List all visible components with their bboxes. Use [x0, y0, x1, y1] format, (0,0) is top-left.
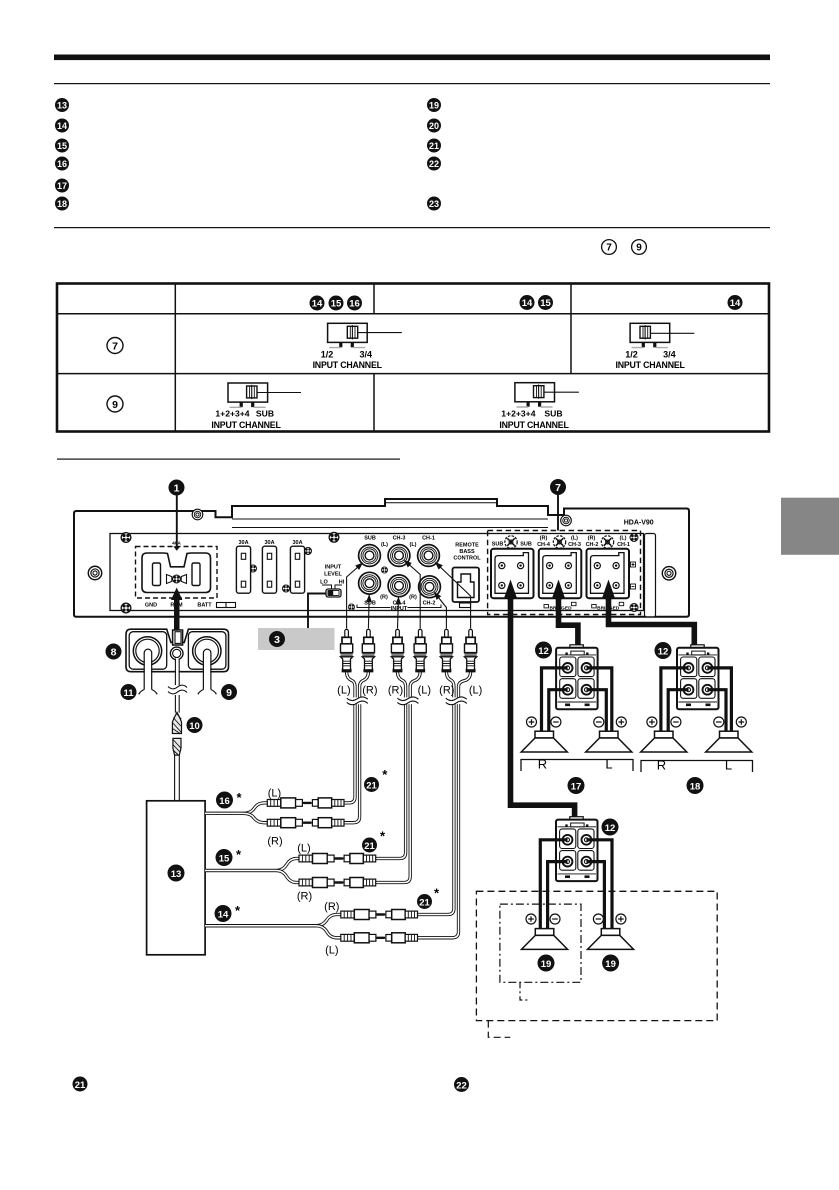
cable break symbol CH-4/CH-3 pair — [397, 697, 418, 705]
callout badge 18 — [687, 777, 704, 794]
speaker terminal labels CH-4 CH-3 — [537, 536, 581, 549]
screw left end cap — [88, 566, 101, 579]
svg-text:HDA-V90: HDA-V90 — [624, 520, 654, 527]
screw dashed box top-right — [630, 534, 638, 542]
head unit output wires run 15 — [205, 859, 299, 883]
svg-text:16: 16 — [219, 796, 230, 807]
svg-text:CH-3: CH-3 — [568, 542, 581, 548]
leader plug CH-3 to jack — [405, 561, 421, 629]
svg-text:*: * — [380, 829, 386, 844]
remote wire lower — [175, 695, 179, 713]
speaker wires group 17 — [542, 668, 612, 732]
svg-text:R: R — [538, 757, 547, 772]
callout badge 13 — [168, 865, 185, 882]
svg-text:23: 23 — [429, 199, 439, 209]
svg-text:(L): (L) — [297, 843, 310, 855]
svg-text:13: 13 — [171, 869, 182, 880]
svg-text:*: * — [382, 767, 388, 782]
svg-text:CH-1: CH-1 — [617, 542, 630, 548]
extension cable 21 connectors run 15 (L) — [299, 854, 376, 864]
power plug insertion arrow — [171, 588, 182, 630]
subwoofer enclosure dashed box — [476, 891, 717, 1020]
screw top face right — [561, 515, 572, 526]
screw dashed box bottom-right — [630, 604, 638, 612]
svg-text:21: 21 — [75, 1080, 86, 1091]
gray index tab at page edge — [781, 498, 839, 555]
table header badge 16 (col2) — [347, 296, 362, 311]
svg-text:9: 9 — [226, 687, 232, 699]
svg-text:SUB: SUB — [364, 536, 376, 542]
svg-text:16: 16 — [57, 159, 67, 169]
callout badge 16 — [216, 790, 242, 809]
svg-text:(L): (L) — [619, 536, 626, 542]
svg-text:16: 16 — [349, 298, 360, 309]
svg-text:14: 14 — [730, 298, 741, 309]
svg-text:30A: 30A — [264, 540, 274, 546]
extension cable 21 connectors run 14 (R) — [341, 910, 418, 920]
callout badge 1 — [169, 480, 185, 496]
svg-text:(R): (R) — [439, 685, 454, 697]
svg-text:15: 15 — [540, 298, 551, 309]
callout badge 10 — [187, 717, 203, 733]
leader plug CH-4 to jack — [398, 597, 399, 628]
leader plug SUB(L) to jack — [347, 563, 363, 629]
INPUT bracket — [357, 605, 441, 612]
callout badge 11 — [121, 684, 137, 700]
svg-text:17: 17 — [571, 781, 582, 792]
svg-text:8: 8 — [111, 646, 117, 658]
extension cable 21 connectors run 14 (L) — [341, 933, 418, 943]
extension cable 21 connectors run 16 (L) — [267, 798, 344, 808]
RCA plug CH-2 (R) — [440, 629, 452, 671]
svg-text:GND: GND — [145, 602, 157, 608]
svg-text:1/2: 1/2 — [625, 349, 638, 359]
INPUT LEVEL switch — [326, 589, 341, 597]
svg-text:(R): (R) — [297, 891, 312, 903]
svg-text:7: 7 — [606, 243, 612, 254]
cable break symbol CH-2/CH-1 pair — [446, 697, 467, 705]
speaker cable CH-4/CH-3 (thick) — [552, 580, 578, 646]
RCA plug CH-4 (R) — [391, 629, 403, 671]
svg-text:LEVEL: LEVEL — [324, 571, 342, 577]
svg-text:21: 21 — [364, 841, 375, 852]
crimp splice connector lower — [173, 738, 181, 755]
svg-text:*: * — [434, 886, 440, 901]
heading thin rule — [54, 83, 770, 84]
table header badge 15 (col2) — [329, 296, 344, 311]
run 15 channel labels — [297, 843, 312, 903]
power terminal connector — [142, 553, 211, 593]
remote bass control jack — [453, 568, 480, 608]
speaker cable SUB (thick) — [504, 580, 575, 818]
callout badge 7 — [550, 479, 566, 495]
svg-text:15: 15 — [219, 853, 230, 864]
speaker terminal block CH-4/CH-3 — [539, 549, 582, 598]
fuse F2 30A — [262, 540, 276, 593]
ground wire — [139, 649, 158, 694]
dash-dot tail from inner box — [520, 982, 529, 1000]
svg-text:BATT: BATT — [197, 602, 212, 608]
legend badge 19 — [427, 98, 441, 112]
crossover network block group 18 (callout 12) — [677, 645, 719, 709]
remote wire break symbol — [168, 685, 187, 694]
screw left of INPUT bracket — [348, 604, 354, 610]
svg-text:(L): (L) — [469, 685, 482, 697]
svg-text:CH-2: CH-2 — [423, 600, 436, 606]
svg-text:BASS: BASS — [459, 549, 475, 555]
svg-text:(L): (L) — [381, 542, 388, 548]
fuse F3 30A — [290, 540, 304, 593]
screw between CH-2/CH-1 — [601, 536, 613, 548]
table header badge 14 (col4) — [728, 295, 743, 310]
dashed tail from outer box — [488, 1021, 510, 1038]
svg-text:(R): (R) — [324, 901, 339, 913]
svg-text:14: 14 — [218, 909, 229, 920]
screw panel bottom-left — [121, 603, 131, 613]
REMOTE BASS CONTROL labels — [453, 543, 481, 562]
svg-text:3/4: 3/4 — [360, 349, 373, 359]
speaker L group 18 — [706, 731, 752, 752]
svg-text:11: 11 — [123, 688, 134, 699]
svg-text:12: 12 — [605, 823, 616, 834]
svg-text:R: R — [657, 758, 666, 773]
REM label — [170, 602, 183, 608]
crossover network block group 19 (callout 12) — [556, 817, 598, 881]
legend badge 14 — [55, 119, 69, 133]
svg-text:*: * — [236, 847, 242, 862]
speaker terminal labels CH-2 CH-1 — [586, 536, 630, 549]
callout badge 17 — [568, 777, 585, 794]
screw right end cap — [662, 567, 675, 580]
callout badge 19 left — [538, 955, 555, 972]
head unit output wires run 16 — [205, 803, 267, 823]
head unit output wires run 14 — [205, 915, 341, 938]
amplifier HDA-V90 rear panel body — [74, 499, 689, 617]
svg-text:19: 19 — [541, 959, 552, 970]
callout badge 21 run16 — [364, 767, 388, 792]
HDA-V90 model label — [624, 520, 654, 527]
speaker L group 17 — [586, 731, 632, 752]
svg-text:CH-4: CH-4 — [537, 542, 551, 548]
REM terminal tab — [173, 630, 183, 645]
svg-text:SUB: SUB — [520, 542, 532, 548]
RCA pigtail cable SUB pair — [344, 672, 368, 823]
svg-text:15: 15 — [57, 141, 67, 151]
legend badge 17 — [55, 179, 69, 193]
svg-text:9: 9 — [636, 243, 642, 254]
speaker wires group 18 — [661, 668, 732, 732]
screw panel top-left — [121, 533, 131, 543]
svg-text:21: 21 — [429, 141, 439, 151]
legend badge 15 — [55, 139, 69, 153]
svg-text:19: 19 — [605, 959, 616, 970]
svg-text:19: 19 — [429, 100, 439, 110]
screw fuse3 bottom-left — [282, 585, 289, 592]
speaker terminal block SUB — [491, 549, 534, 598]
INPUT LEVEL switch labels — [320, 564, 345, 589]
polarity marks group 19 — [526, 914, 626, 924]
svg-text:CONTROL: CONTROL — [453, 556, 481, 562]
table row label circled 9 — [107, 396, 123, 412]
svg-text:(R): (R) — [267, 836, 282, 848]
svg-text:INPUT: INPUT — [325, 564, 342, 570]
svg-text:SUB: SUB — [256, 409, 274, 419]
head unit box (callout 13) — [147, 801, 206, 955]
switch A: INPUT CHANNEL 1/2-3/4 (row 7, col 2) — [313, 323, 402, 370]
top heading thick rule — [54, 55, 770, 61]
svg-text:(R): (R) — [409, 595, 417, 601]
svg-text:REMOTE: REMOTE — [455, 543, 479, 549]
svg-text:INPUT CHANNEL: INPUT CHANNEL — [211, 420, 281, 430]
svg-text:15: 15 — [331, 298, 342, 309]
svg-text:1/2: 1/2 — [321, 349, 334, 359]
svg-text:(R): (R) — [380, 595, 388, 601]
svg-text:(R): (R) — [540, 536, 548, 542]
callout badge 12 group 19 — [602, 819, 619, 836]
speaker terminal block CH-2/CH-1 — [587, 549, 630, 598]
legend bottom rule — [54, 227, 770, 228]
speaker terminal labels SUB SUB — [492, 542, 532, 548]
svg-text:3: 3 — [274, 634, 280, 646]
svg-text:18: 18 — [57, 199, 67, 209]
svg-text:21: 21 — [366, 780, 377, 791]
battery wire — [198, 649, 217, 694]
legend badge 20 — [427, 119, 441, 133]
power plug housing — [126, 629, 229, 672]
run 16 channel labels — [267, 788, 282, 848]
svg-text:(L): (L) — [418, 685, 431, 697]
crossover network block group 17 (callout 12) — [556, 645, 598, 709]
footnote badge 21 — [73, 1077, 88, 1092]
ground ring terminal (GND wire, callout 11) — [133, 637, 161, 665]
wire from INPUT LEVEL switch to callout 3 — [308, 594, 326, 629]
svg-text:9: 9 — [112, 399, 118, 411]
leader from callout 7 to speaker terminals — [557, 495, 559, 531]
svg-text:INPUT CHANNEL: INPUT CHANNEL — [499, 420, 569, 430]
svg-text:(L): (L) — [409, 542, 416, 548]
svg-text:13: 13 — [57, 100, 67, 110]
svg-text:30A: 30A — [292, 540, 302, 546]
svg-text:*: * — [235, 903, 241, 918]
40A label — [172, 541, 181, 547]
RCA input jack CH-3 (L) — [388, 545, 410, 567]
svg-text:(R): (R) — [362, 685, 377, 697]
svg-text:INPUT CHANNEL: INPUT CHANNEL — [615, 360, 685, 370]
svg-text:14: 14 — [57, 121, 67, 131]
leader plug SUB(R) to jack — [367, 595, 370, 629]
screw panel mid-top — [329, 532, 339, 542]
crimp splice connector upper (callout 10) — [172, 712, 181, 733]
svg-text:(L): (L) — [268, 788, 281, 800]
RCA input jack SUB (R) — [359, 572, 381, 594]
bracket group 18 — [641, 758, 753, 773]
BATT label — [197, 602, 212, 608]
svg-text:*: * — [236, 790, 242, 805]
RCA plug CH-3 (L) — [414, 629, 426, 671]
svg-text:3/4: 3/4 — [663, 349, 676, 359]
remote wire to head unit — [175, 755, 180, 801]
table header badge 14 (col2) — [310, 296, 325, 311]
RCA input jack CH-2 (R) — [419, 576, 441, 598]
svg-text:18: 18 — [690, 781, 701, 792]
run 14 channel labels — [324, 901, 339, 957]
legend badge 18 — [55, 197, 69, 211]
svg-text:CH-1: CH-1 — [422, 536, 435, 542]
speaker R group 18 — [641, 731, 687, 752]
subwoofer inner dash-dot box — [500, 904, 581, 982]
plug labels row — [337, 685, 482, 697]
svg-text:10: 10 — [189, 721, 200, 732]
screw between fuses — [249, 565, 256, 572]
callout badge 19 right — [602, 955, 619, 972]
svg-text:SUB: SUB — [492, 542, 504, 548]
svg-text:L: L — [725, 758, 732, 773]
callout badge 8 — [106, 644, 122, 660]
connector footprint by BATT — [217, 603, 236, 608]
legend badge 23 — [427, 197, 441, 211]
svg-text:12: 12 — [538, 646, 549, 657]
subwoofer speaker left (callout 19) — [522, 929, 568, 950]
amp recessed rear panel — [110, 534, 656, 617]
polarity marks group 18 — [647, 717, 746, 727]
callout 3 gray box — [258, 628, 335, 650]
svg-text:SUB: SUB — [364, 600, 376, 606]
svg-text:(R): (R) — [588, 536, 596, 542]
cable break symbol SUB pair — [347, 697, 368, 705]
extension cable 21 connectors run 16 (R) — [267, 818, 344, 828]
RCA plug SUB (R) — [362, 629, 374, 671]
screw between CH-4/CH-3 — [553, 536, 565, 548]
callout badge 3 — [269, 631, 285, 647]
switch D: INPUT CHANNEL 1/2-3/4 (row 7, col 4) — [615, 323, 694, 370]
RCA input jack CH-1 (L) — [418, 545, 440, 567]
svg-text:CH-2: CH-2 — [586, 542, 599, 548]
table row label circled 7 — [107, 338, 123, 354]
battery ring terminal (BATT wire, callout 9) — [193, 637, 221, 665]
svg-text:17: 17 — [57, 181, 67, 191]
svg-text:1: 1 — [174, 482, 180, 494]
GND label — [145, 602, 157, 608]
svg-text:21: 21 — [419, 897, 430, 908]
legend badge 21 — [427, 139, 441, 153]
svg-text:7: 7 — [112, 340, 118, 352]
svg-text:CH-3: CH-3 — [393, 536, 406, 542]
extension cable 21 connectors run 15 (R) — [299, 878, 376, 888]
table header badge 14 (col3) — [520, 295, 535, 310]
svg-text:1+2+3+4: 1+2+3+4 — [501, 409, 535, 419]
svg-text:22: 22 — [456, 1080, 467, 1091]
RCA input jack CH-4 (R) — [388, 575, 410, 597]
svg-text:INPUT: INPUT — [391, 606, 408, 612]
switch C: INPUT CHANNEL 1+2+3+4 SUB (row 9, col 3) — [499, 383, 579, 430]
diagram section heading underline — [57, 459, 400, 460]
remote ring terminal small — [170, 647, 183, 660]
RCA plug CH-1 (L) — [465, 629, 477, 671]
speaker terminal dashed outline — [488, 531, 641, 615]
screw fuse3 top-right — [304, 547, 311, 554]
callout badge 15 — [216, 847, 242, 866]
circled ref 7 — [602, 240, 617, 255]
remote turn-on wire — [175, 658, 179, 685]
svg-text:(L): (L) — [571, 536, 578, 542]
svg-text:14: 14 — [522, 298, 533, 309]
RCA plug SUB (L) — [341, 629, 353, 671]
polarity marks group 17 — [527, 717, 627, 727]
power terminal center screw — [173, 575, 181, 583]
svg-text:30A: 30A — [238, 540, 248, 546]
RCA pigtail cable CH-4/CH-3 pair — [376, 672, 420, 883]
power terminal dashed outline — [136, 547, 218, 599]
input jack labels — [364, 536, 435, 607]
BRIDGED label CH-2/CH-1 — [592, 602, 624, 611]
svg-text:SUB: SUB — [544, 409, 562, 419]
switch B: INPUT CHANNEL 1+2+3+4 SUB (row 9, col 2) — [211, 383, 301, 430]
legend badge 22 — [427, 157, 441, 171]
svg-text:12: 12 — [658, 646, 669, 657]
callout badge 12 group 18 — [655, 642, 672, 659]
svg-text:(R): (R) — [388, 685, 403, 697]
callout badge 21 run14 — [417, 886, 440, 910]
callout badge 21 run15 — [362, 829, 386, 853]
table header badge 15 (col3) — [538, 295, 553, 310]
BRIDGED label CH-4/CH-3 — [544, 602, 576, 611]
speaker R group 17 — [521, 731, 567, 752]
footnote badge 22 — [454, 1077, 469, 1092]
legend badge 16 — [55, 157, 69, 171]
svg-text:22: 22 — [429, 159, 439, 169]
leader from callout 1 to power terminal — [173, 496, 180, 551]
settings table frame — [57, 284, 769, 432]
speaker wires group 19 — [540, 840, 612, 929]
fuse F1 30A — [236, 540, 250, 593]
svg-text:(L): (L) — [337, 685, 350, 697]
leader plug CH-1 to jack — [436, 563, 471, 629]
svg-text:14: 14 — [312, 298, 323, 309]
svg-text:INPUT CHANNEL: INPUT CHANNEL — [313, 360, 383, 370]
callout badge 9 — [221, 684, 237, 700]
screw top face left — [192, 509, 203, 520]
svg-text:20: 20 — [429, 121, 439, 131]
RCA pigtail cable CH-2/CH-1 pair — [418, 672, 471, 938]
subwoofer speaker right (callout 19) — [588, 929, 634, 950]
RCA input jack SUB (L) — [359, 545, 381, 567]
bracket group 17 — [521, 757, 633, 772]
legend badge 13 — [55, 98, 69, 112]
polarity minus mark right column — [631, 584, 636, 589]
svg-text:(L): (L) — [325, 945, 338, 957]
svg-text:L: L — [605, 757, 612, 772]
leader plug CH-2 to jack — [435, 593, 447, 629]
speaker cable CH-2/CH-1 (thick) — [602, 580, 694, 646]
circled ref 9 — [632, 240, 647, 255]
callout badge 14 — [215, 903, 241, 922]
screw between input jacks — [381, 567, 387, 573]
svg-text:1+2+3+4: 1+2+3+4 — [215, 409, 249, 419]
callout badge 12 group 17 — [535, 642, 552, 659]
svg-text:7: 7 — [555, 482, 561, 494]
polarity plus mark right column — [631, 562, 636, 567]
screw between SUB labels — [505, 536, 517, 548]
